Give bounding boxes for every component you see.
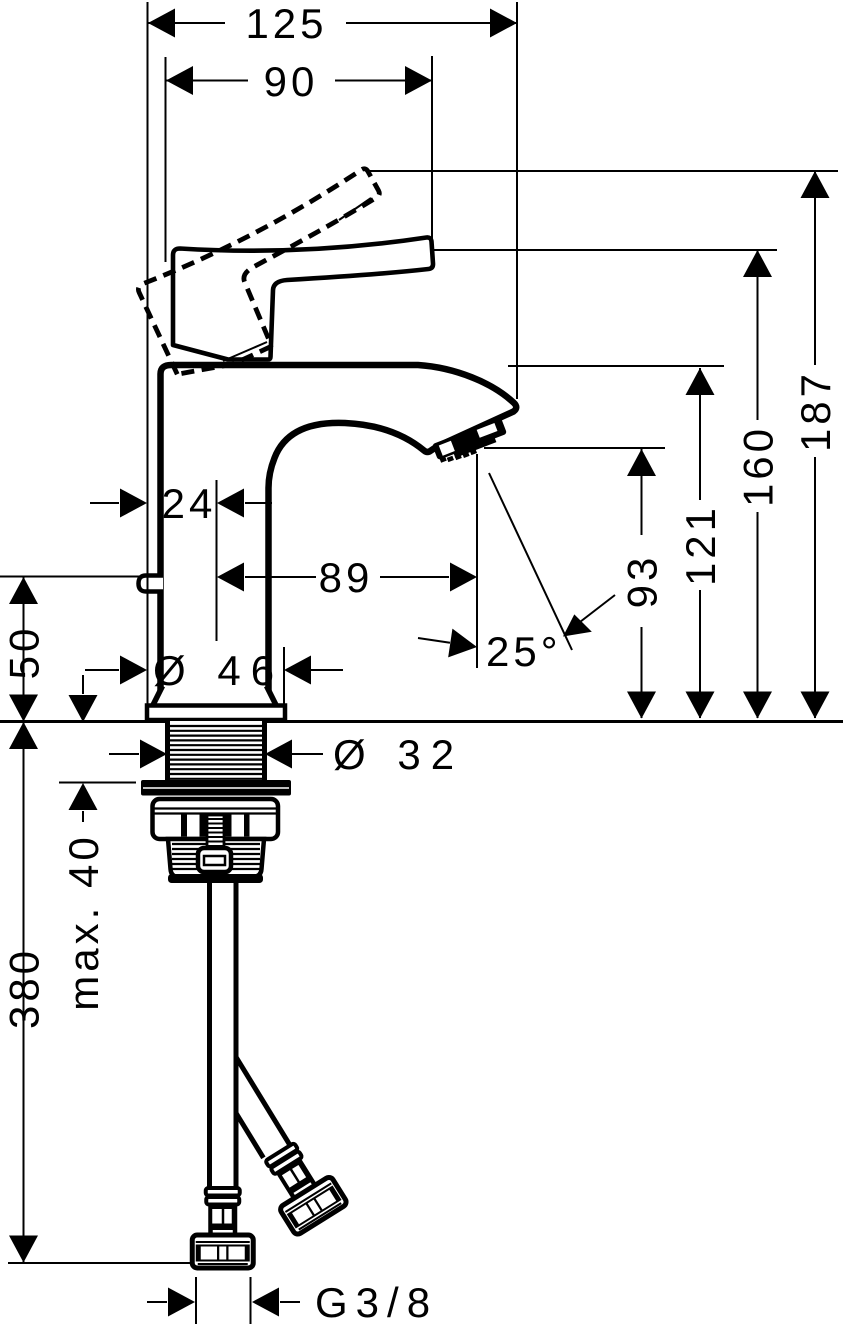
dimension 160 arrows [743,250,772,277]
handle lever raised position (dashed) [132,167,419,388]
dimension 125 extension right [516,2,518,399]
dimension 380 line [23,722,25,1262]
connector G3/8 on straight hose [192,1188,253,1268]
dimension 90 arrows [166,66,193,95]
reference line 160 level [433,249,777,251]
angled supply hose [236,1057,291,1146]
reference line 93 level [484,447,665,449]
svg-text:Ø 32: Ø 32 [333,731,464,778]
threaded taper below nut [168,839,264,877]
dimension 46 extension right [283,647,285,716]
dimension max40 lower arrow [82,811,84,822]
spray angle arrow at vertical [418,638,450,643]
dimension 380 arrows [9,722,38,749]
dimension 93 arrows [627,449,656,476]
svg-text:93: 93 [619,554,666,609]
reference line 187 level [367,170,838,172]
handle base edge line (raised) [223,342,267,361]
dimension G38 line [147,1301,167,1303]
handle end face line (raised) [339,198,371,220]
dimension max40 tick [59,782,136,784]
aerator at spout outlet [432,418,510,467]
dimension 125 line [148,22,225,24]
svg-text:125: 125 [245,0,327,47]
dimension 93 line [641,449,643,535]
straight supply hose [207,883,212,1188]
dimension 46 arrows [120,656,147,685]
svg-text:121: 121 [677,504,724,586]
dimension 125 extension left [147,2,149,706]
dimension 160 line [757,250,759,420]
svg-text:89: 89 [319,554,374,601]
faucet body with spout [161,365,517,700]
reference line 50 top [0,576,141,578]
dimension 187 line [814,171,816,365]
svg-text:max. 40: max. 40 [60,833,107,1010]
dimension max40 upper arrow [82,675,84,694]
dimension 32 arrows [140,740,167,769]
dimension 121 line [699,368,701,500]
dimension 125 arrows [148,9,175,38]
dimension 121 arrows [686,368,715,395]
reference line 121 level [508,365,724,367]
dimension 24 arrows [120,489,147,518]
svg-text:160: 160 [735,425,782,507]
svg-text:380: 380 [1,947,48,1029]
reference line 380 bottom [8,1262,192,1264]
mounting nut with ribs [153,799,279,839]
spray angle arrow at slope [567,595,615,632]
fastening set bottom cap [168,874,263,883]
dimension 90 extension right [431,56,433,243]
svg-text:24: 24 [162,480,217,527]
dimension 89 arrows [217,563,244,592]
locknut washer band [141,780,291,796]
connector G3/8 on angled hose [254,1136,348,1236]
dimension G38 extension lines [195,1277,197,1324]
dimension 46 line [85,669,119,671]
body base skirt [153,687,277,706]
threaded shank below deck [168,721,265,781]
dimension 50 line [23,577,25,721]
dimension 90 line [166,80,248,82]
svg-text:187: 187 [792,370,839,452]
dimension G38 arrows [168,1288,195,1317]
mounting surface line [0,720,843,723]
svg-text:25°: 25° [486,628,562,675]
svg-text:G3/8: G3/8 [315,1279,438,1326]
handle lever (solid, rest position) [173,237,433,359]
deck plate (escutcheon) [147,706,285,721]
dimension 24 line [90,502,119,504]
svg-text:Ø 46: Ø 46 [153,647,284,694]
dimension 89 line [245,576,316,578]
dimension 187 arrows [801,171,830,198]
central fixing screw [207,815,224,855]
spray angle 25 deg line [489,473,572,650]
dimension 90 extension left [165,57,167,262]
dimension 32 line [109,753,139,755]
svg-text:50: 50 [1,625,48,680]
pull-rod hook on body left [139,576,164,592]
dimension 50 arrows [9,577,38,604]
svg-text:90: 90 [264,58,319,105]
centreline extension x216 [216,480,218,641]
spray axis vertical line [476,454,478,668]
